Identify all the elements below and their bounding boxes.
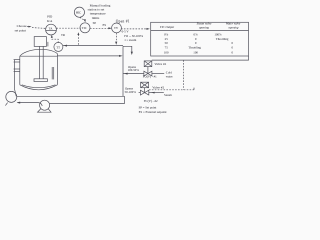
arrowhead HIC signal bbox=[84, 19, 86, 22]
wire: loop return line upper bbox=[17, 95, 125, 97]
wire: loop bottom line bbox=[50, 103, 125, 105]
wire: dashed TY to table bbox=[121, 28, 147, 30]
svg-text:K/A: K/A bbox=[47, 19, 53, 23]
wire: steam supply pipe bbox=[149, 92, 164, 94]
valve V2 actuator bbox=[141, 82, 149, 88]
svg-text:SP = Set point: SP = Set point bbox=[139, 106, 157, 110]
arrowhead TY down bbox=[115, 42, 117, 45]
svg-text:opening: opening bbox=[199, 25, 209, 29]
jacket nozzle upper bbox=[14, 60, 20, 62]
svg-text:Valve #1: Valve #1 bbox=[154, 62, 166, 66]
wire: setpoint arrow bbox=[27, 26, 30, 28]
svg-text:Open #1: Open #1 bbox=[116, 20, 130, 24]
svg-text:0-5 V: 0-5 V bbox=[122, 29, 130, 33]
node: Opens 100-50% bbox=[128, 65, 140, 72]
wire: riser pipe bbox=[122, 46, 124, 96]
svg-text:set point: set point bbox=[15, 29, 26, 33]
arrowhead on TT pipe bbox=[63, 45, 67, 47]
svg-text:100%: 100% bbox=[214, 32, 222, 36]
transmitter circle TT bbox=[54, 42, 63, 51]
table header bbox=[160, 22, 241, 30]
table rows bbox=[164, 32, 234, 54]
wire: dashed TT up bbox=[52, 36, 58, 43]
arrowhead setpoint bbox=[28, 26, 31, 28]
wire: dashed TA to TIC bbox=[56, 27, 80, 29]
valve V1 body bbox=[144, 71, 152, 76]
jacket feed pipe bbox=[13, 60, 15, 89]
svg-text:100-50%: 100-50% bbox=[128, 68, 140, 72]
svg-text:50: 50 bbox=[165, 41, 169, 45]
svg-text:TIC Output: TIC Output bbox=[160, 25, 174, 29]
svg-text:1 = steam: 1 = steam bbox=[124, 38, 137, 42]
wire: dashed TIC to TY bbox=[90, 27, 110, 29]
svg-text:Throttling: Throttling bbox=[188, 46, 201, 50]
node: Cold water label bbox=[166, 70, 173, 78]
valve V2 stem bbox=[144, 88, 146, 93]
dip tube bbox=[52, 67, 54, 79]
arrowhead into riser bbox=[119, 55, 123, 57]
pump P1 bbox=[5, 89, 16, 106]
wire: dashed TT branch to TIC bbox=[77, 34, 79, 45]
svg-text:Choose: Choose bbox=[17, 24, 27, 28]
svg-text:TT: TT bbox=[56, 45, 60, 49]
svg-text:Throttling: Throttling bbox=[216, 37, 229, 41]
pump P2 bbox=[38, 100, 52, 112]
svg-text:100: 100 bbox=[164, 50, 169, 54]
arrowhead TT branch bbox=[77, 32, 79, 35]
controller circle TA bbox=[46, 24, 57, 35]
svg-text:limits: limits bbox=[92, 16, 100, 20]
wire: loop right corner bbox=[124, 96, 126, 103]
svg-text:opening: opening bbox=[229, 25, 239, 29]
svg-text:75: 75 bbox=[165, 46, 169, 50]
valve V2 body bbox=[140, 90, 148, 95]
wire: table to valves link bbox=[152, 56, 249, 60]
svg-text:50-100%: 50-100% bbox=[125, 90, 137, 94]
valve V1 actuator bbox=[144, 61, 152, 67]
svg-text:TIC: TIC bbox=[82, 26, 87, 30]
svg-text:0%: 0% bbox=[164, 32, 169, 36]
motor bracket bbox=[47, 42, 49, 47]
wire: jacket rim return pipe bbox=[57, 55, 120, 57]
wire: TT sensing pipe bbox=[63, 45, 123, 47]
svg-text:Steam: Steam bbox=[164, 93, 172, 97]
arrowhead into table bbox=[146, 28, 149, 30]
svg-text:100: 100 bbox=[193, 50, 198, 54]
svg-text:HIC: HIC bbox=[76, 10, 81, 14]
svg-text:ES = External setpoint: ES = External setpoint bbox=[139, 110, 167, 114]
controller circle TIC bbox=[80, 23, 90, 33]
manual loading station HIC bbox=[74, 7, 84, 17]
wire: dashed TY down bbox=[116, 33, 118, 42]
tank T1 shell bbox=[20, 49, 58, 89]
svg-text:SP: SP bbox=[93, 21, 97, 25]
wire: riser top cap bbox=[123, 46, 132, 52]
svg-text:water: water bbox=[166, 74, 173, 78]
wire: steam branch pipe bbox=[139, 92, 141, 94]
jacket nozzle lower bbox=[14, 69, 20, 71]
agitator impeller bbox=[34, 79, 47, 82]
arrowhead steam into valve bbox=[151, 92, 155, 94]
agitator shaft bbox=[39, 46, 41, 78]
arrowhead into TA bbox=[51, 35, 53, 38]
controller TA label PID K/A bbox=[47, 15, 53, 23]
svg-text:FO(V) - #1: FO(V) - #1 bbox=[143, 74, 157, 78]
svg-text:0%: 0% bbox=[194, 32, 199, 36]
svg-text:FC(V) - #2: FC(V) - #2 bbox=[144, 99, 158, 103]
arrowhead into TY bbox=[108, 27, 111, 29]
wire: cold water supply pipe bbox=[152, 73, 164, 75]
arrowhead cold water into riser bbox=[124, 73, 128, 75]
wire: dashed into valve V2 stem bbox=[149, 89, 194, 91]
splitter circle TY bbox=[112, 23, 122, 33]
svg-text:ES: ES bbox=[103, 23, 107, 27]
node: choose set point label bbox=[15, 24, 27, 33]
node: manual loading note bbox=[88, 4, 111, 20]
wire: pump P1 suction line bbox=[17, 102, 38, 104]
valve V1 stem bbox=[147, 67, 149, 74]
wire: dashed end tick bbox=[193, 88, 195, 90]
svg-text:Valve #2: Valve #2 bbox=[152, 85, 164, 89]
node: Opens 50-100% bbox=[125, 86, 137, 94]
table frame bbox=[151, 22, 249, 56]
wire: dashed setpoint to TA bbox=[32, 27, 46, 30]
wire: dashed drop to valve V2 bbox=[183, 60, 185, 90]
wire: cold water branch pipe bbox=[123, 73, 144, 75]
agitator motor M bbox=[34, 37, 46, 47]
wire: dashed HIC to TIC bbox=[80, 17, 85, 20]
arrowhead riser cap down bbox=[131, 52, 133, 55]
wire: pump P2 inlet bend bbox=[39, 103, 43, 106]
arrowhead into P1 bbox=[17, 102, 21, 104]
